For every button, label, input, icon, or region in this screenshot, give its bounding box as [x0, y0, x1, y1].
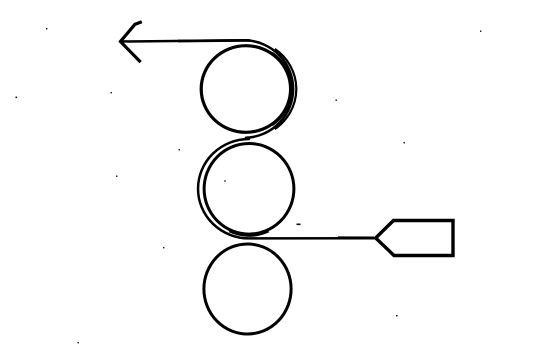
wire (slight thickening of top web line near tangent) — [178, 39, 250, 42]
arrow head (left-pointing, open) — [121, 22, 141, 61]
wire (thicker scanned segment of bottom web line near tag) — [338, 236, 374, 239]
roller (bottom circle) — [204, 244, 291, 334]
tag (flag-shaped box at right) — [376, 221, 453, 256]
web (strip path wrapping rollers) — [121, 40, 377, 238]
speckle dots (scan noise) — [16, 28, 482, 343]
web (thicker scanned pass on right of top roller) — [275, 49, 297, 129]
roller edge (thicker scanned pass, middle roller bottom) — [229, 231, 268, 235]
roller (middle circle) — [204, 144, 294, 235]
roller edge (thicker scanned pass, top roller right side) — [272, 53, 291, 125]
roller (top circle) — [201, 46, 290, 133]
